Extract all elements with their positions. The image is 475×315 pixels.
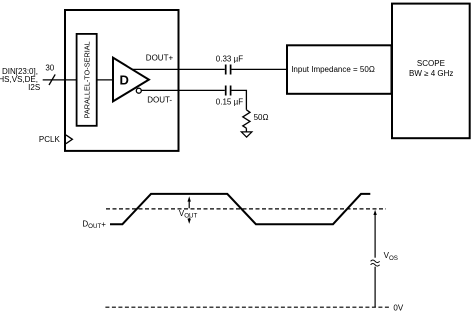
parallel-to-serial block [77, 34, 97, 126]
svg-text:SCOPE: SCOPE [417, 59, 445, 68]
wire P2S to driver [97, 79, 114, 81]
svg-text:DOUT+: DOUT+ [146, 53, 174, 62]
capacitor C2 0.15 uF [216, 86, 243, 107]
svg-text:VOUT: VOUT [179, 209, 198, 220]
svg-text:PARALLEL-TO-SERIAL: PARALLEL-TO-SERIAL [82, 41, 91, 118]
wire DOUT+ [132, 68, 225, 70]
waveform trace [110, 194, 370, 224]
svg-text:DOUT+: DOUT+ [82, 219, 106, 230]
VOUT upper arrow [188, 196, 191, 208]
svg-text:30: 30 [45, 64, 54, 73]
clock input symbol [66, 135, 73, 144]
VOS measure line with arrow [373, 210, 376, 308]
scope box [392, 4, 470, 139]
input bus wire [43, 79, 77, 81]
wire C1 to load [231, 68, 287, 70]
bus width slash [49, 74, 55, 85]
svg-text:BW ≥ 4 GHz: BW ≥ 4 GHz [409, 69, 453, 78]
wire DOUT- [141, 89, 224, 91]
wire C2 to resistor [231, 90, 246, 109]
driver D [113, 58, 149, 102]
svg-text:DIN[23:0], HS,VS,DE, I2S: DIN[23:0], HS,VS,DE, I2S [0, 67, 40, 92]
svg-text:0.15 µF: 0.15 µF [216, 98, 243, 107]
svg-text:DOUT-: DOUT- [147, 96, 172, 105]
dashed 0V line [105, 306, 390, 308]
dashed mid level line [106, 208, 386, 210]
chip box [65, 10, 179, 151]
VOUT lower arrow [188, 218, 191, 224]
svg-text:Input Impedance = 50Ω: Input Impedance = 50Ω [291, 65, 375, 74]
break symbol [370, 258, 381, 267]
resistor R 50 ohm [243, 110, 269, 128]
svg-text:0V: 0V [393, 303, 403, 312]
svg-text:VOS: VOS [384, 251, 398, 262]
svg-text:D: D [120, 72, 129, 87]
svg-text:PCLK: PCLK [39, 135, 61, 144]
wire resistor to ground [245, 128, 247, 132]
inversion bubble [136, 88, 141, 93]
load box Input Impedance = 50 ohm [287, 45, 392, 94]
capacitor C1 0.33 uF [216, 54, 243, 74]
svg-text:0.33 µF: 0.33 µF [216, 54, 243, 63]
ground [241, 132, 252, 137]
svg-text:50Ω: 50Ω [254, 113, 269, 122]
